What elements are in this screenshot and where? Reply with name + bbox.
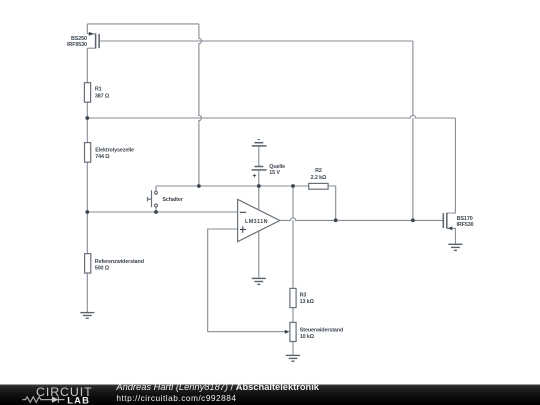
svg-text:LM311N: LM311N	[245, 219, 268, 225]
svg-text:2.2 kΩ: 2.2 kΩ	[311, 175, 327, 181]
svg-text:744 Ω: 744 Ω	[95, 154, 110, 160]
svg-text:13 kΩ: 13 kΩ	[300, 299, 315, 305]
svg-text:Referenzwiderstand: Referenzwiderstand	[95, 259, 144, 265]
svg-text:Steuerwiderstand: Steuerwiderstand	[300, 327, 343, 333]
svg-text:15 V: 15 V	[269, 170, 280, 176]
svg-text:IRF530: IRF530	[457, 222, 474, 228]
svg-text:387 Ω: 387 Ω	[95, 93, 110, 99]
svg-text:R3: R3	[300, 293, 307, 299]
svg-text:500 Ω: 500 Ω	[95, 265, 110, 271]
svg-text:LAB: LAB	[67, 394, 90, 405]
svg-text:BS170: BS170	[457, 216, 473, 222]
svg-text:R1: R1	[95, 87, 102, 93]
svg-text:Schalter: Schalter	[162, 197, 183, 203]
svg-text:Andreas Härtl (Lenny8187) / Ab: Andreas Härtl (Lenny8187) / Abschaltelek…	[115, 382, 319, 392]
svg-text:Elektrolysezelle: Elektrolysezelle	[95, 147, 134, 153]
svg-text:http://circuitlab.com/c992884: http://circuitlab.com/c992884	[116, 393, 236, 403]
svg-text:IRF9530: IRF9530	[67, 42, 87, 48]
svg-text:10 kΩ: 10 kΩ	[300, 334, 315, 340]
svg-text:R2: R2	[315, 168, 322, 174]
